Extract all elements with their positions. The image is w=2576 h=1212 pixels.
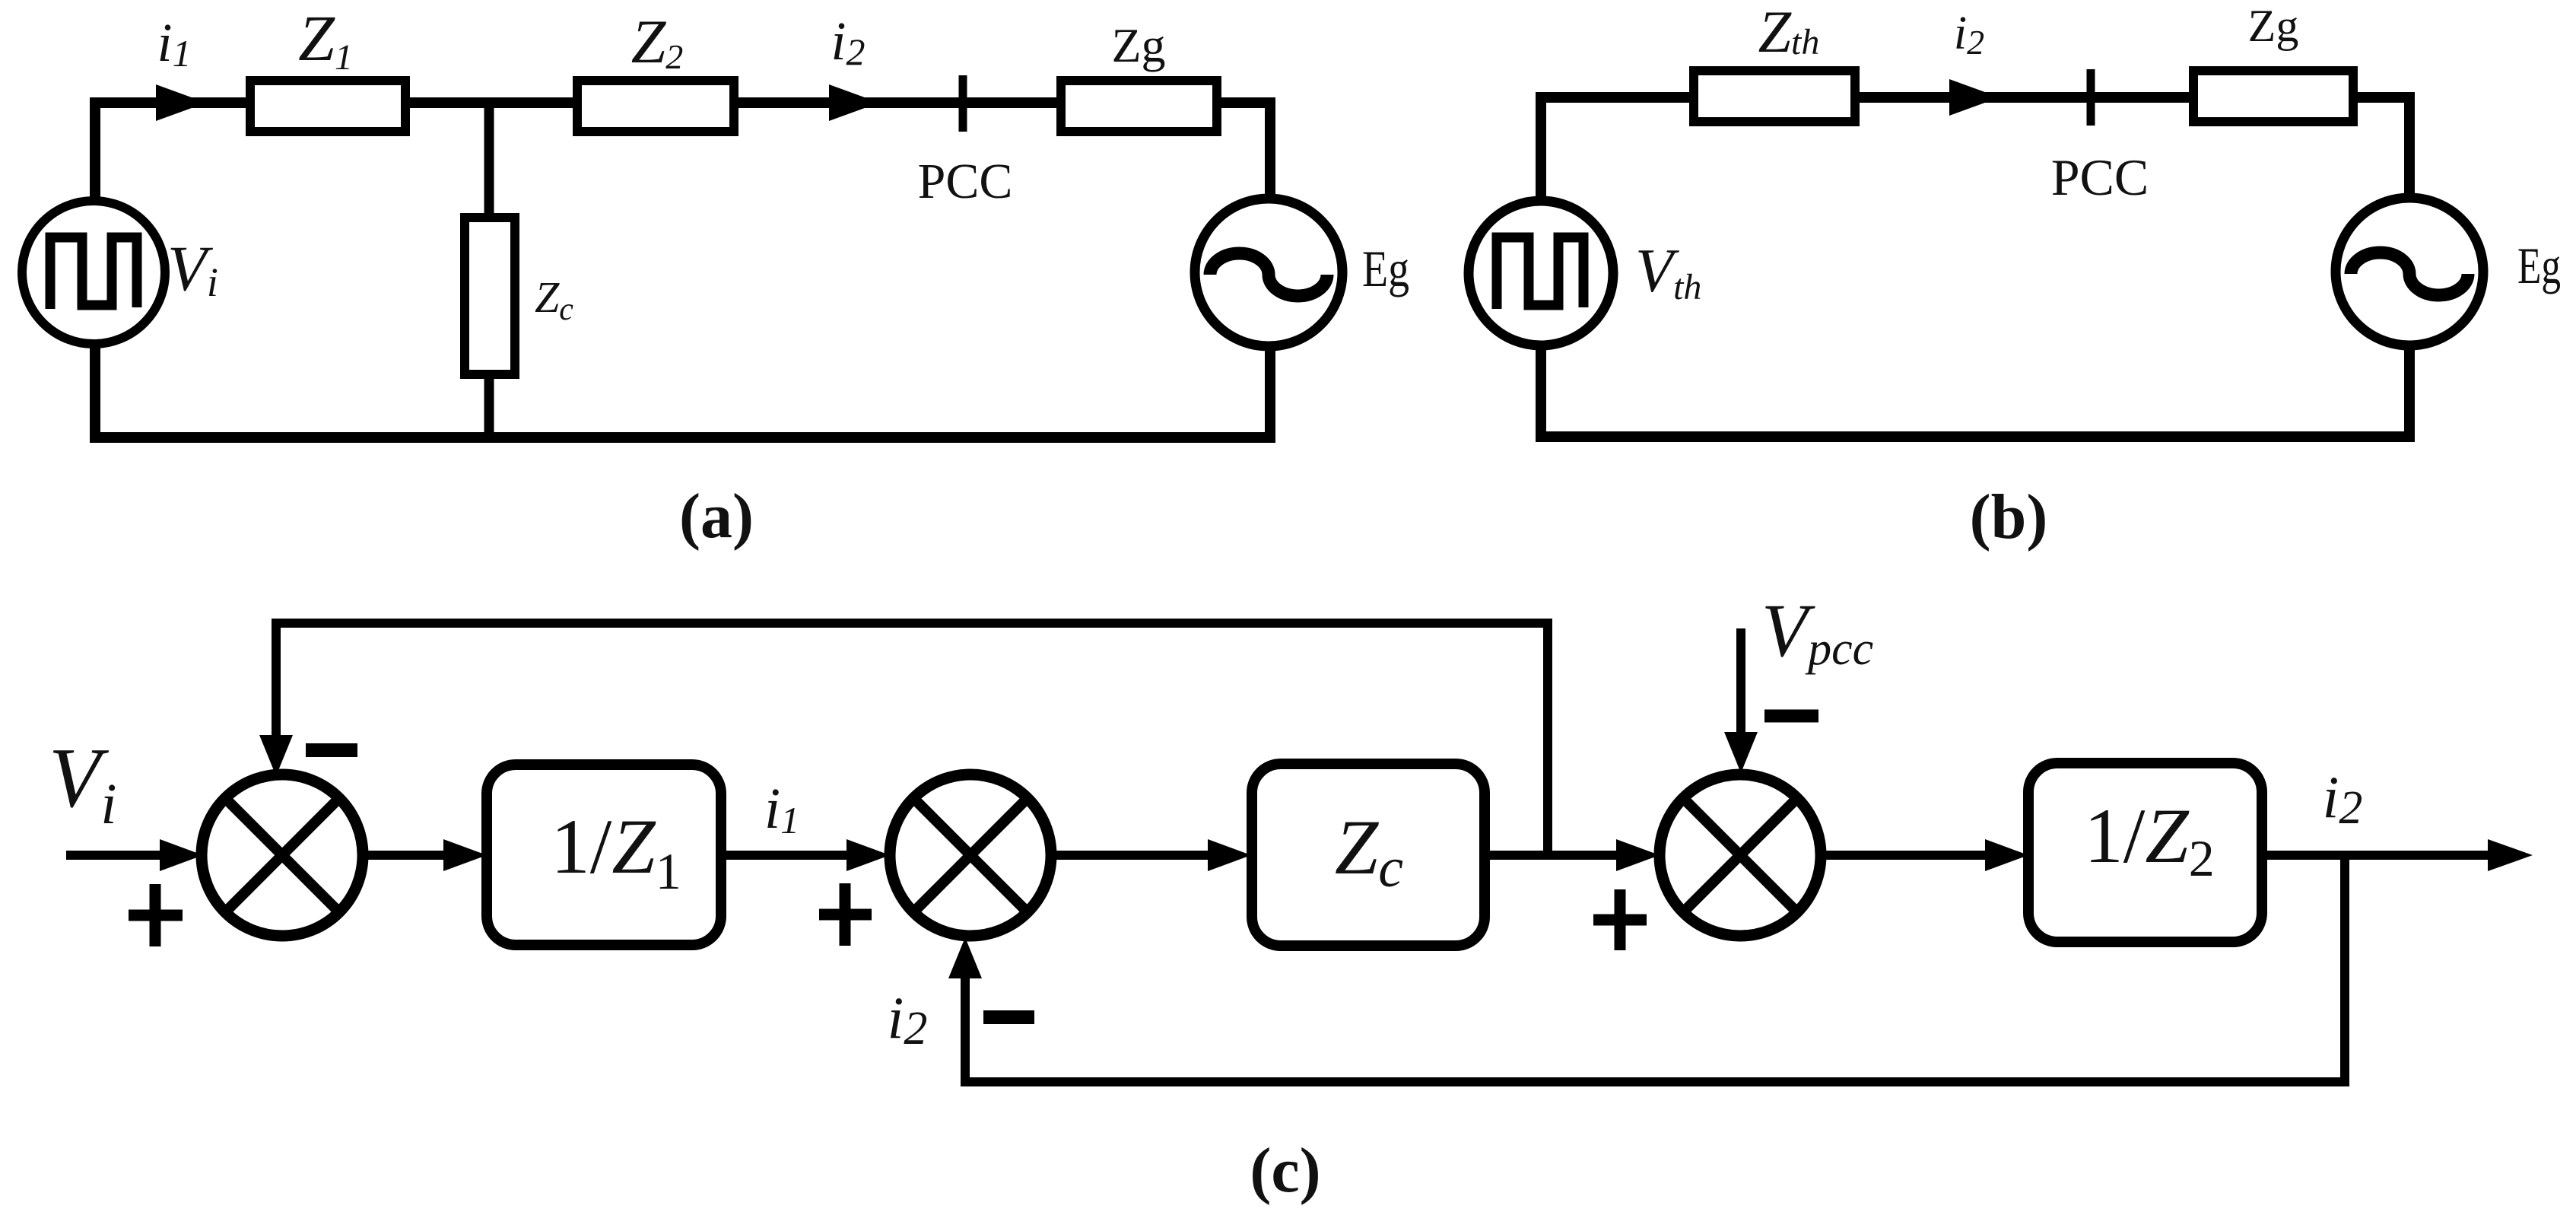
wire top horizontal (b) bbox=[1536, 92, 2415, 103]
wire Eg right vertical top (a) bbox=[1265, 97, 1275, 202]
svg-text:Vi: Vi bbox=[49, 731, 117, 836]
svg-text:i2: i2 bbox=[888, 985, 928, 1055]
svg-text:Z1: Z1 bbox=[298, 2, 353, 78]
source Vth square-wave glyph bbox=[1497, 237, 1583, 309]
resistor Zth bbox=[1694, 71, 1855, 122]
summer S3 circle bbox=[1660, 775, 1821, 936]
wire left vertical bottom (b) bbox=[1536, 345, 1546, 442]
wire S3 to block 1/Z2 bbox=[1821, 851, 1987, 860]
arrow into summer S1 bbox=[160, 839, 203, 871]
wire Eg right vertical bottom (a) bbox=[1265, 342, 1275, 443]
plus sign at S3 bbox=[1593, 889, 1647, 950]
arrow i2 (b) bbox=[1949, 79, 1999, 116]
svg-text:(a): (a) bbox=[679, 481, 754, 552]
svg-text:Zg: Zg bbox=[1111, 18, 1165, 72]
minus sign at S2 bottom bbox=[983, 1010, 1034, 1024]
plus sign at S1 bbox=[129, 884, 183, 946]
wire S2 to block Zc bbox=[1051, 851, 1209, 860]
summer S2 circle bbox=[890, 775, 1051, 936]
wire S1 to block 1/Z1 bbox=[363, 851, 445, 860]
wire 1/Z2 output bbox=[2263, 851, 2491, 860]
feedback wire top: down into S1 bbox=[272, 623, 281, 736]
wire Zc to summer S3 bbox=[1485, 851, 1618, 860]
svg-text:(b): (b) bbox=[1970, 482, 2048, 552]
source Eg sine glyph (a) bbox=[1210, 253, 1327, 296]
summer S2 cross bbox=[913, 798, 1028, 912]
svg-text:Vi: Vi bbox=[167, 233, 218, 305]
svg-text:i2: i2 bbox=[831, 11, 865, 73]
wire left vertical bottom (a) bbox=[90, 344, 100, 443]
plus sign at S2 bbox=[819, 883, 872, 946]
feedback wire tee down to Zc output bbox=[1543, 623, 1552, 855]
wire Vpcc down into S3 bbox=[1736, 628, 1745, 735]
feedback wire i2 bottom horizontal bbox=[961, 1077, 2349, 1086]
arrow output i2 bbox=[2488, 839, 2533, 871]
svg-text:PCC: PCC bbox=[918, 154, 1013, 209]
arrow Vpcc into S3 top bbox=[1724, 732, 1758, 773]
svg-text:Vpcc: Vpcc bbox=[1761, 588, 1873, 675]
source Eg circle (a) bbox=[1195, 199, 1342, 346]
wire bottom horizontal (b) bbox=[1536, 431, 2415, 442]
resistor Zg (b) bbox=[2193, 71, 2353, 122]
wire Zc junction vertical upper bbox=[484, 103, 494, 218]
arrow i2 (a) bbox=[829, 84, 879, 121]
arrow into S2 bbox=[846, 839, 890, 871]
wire bottom horizontal (a) bbox=[90, 432, 1275, 443]
minus sign at S1 top bbox=[306, 743, 357, 757]
block 1/Z2 bbox=[2028, 763, 2262, 942]
arrow i1 bbox=[156, 84, 206, 121]
feedback wire i2 tap down bbox=[2340, 855, 2349, 1086]
resistor Z1 bbox=[250, 81, 405, 132]
wire top horizontal (a) bbox=[90, 97, 1275, 108]
source Eg circle (b) bbox=[2336, 198, 2483, 345]
summer S3 cross bbox=[1683, 798, 1797, 912]
svg-text:Eg: Eg bbox=[2517, 237, 2561, 294]
arrow into S1 top bbox=[259, 735, 293, 776]
wire right vertical top (b) bbox=[2404, 92, 2415, 199]
svg-text:i2: i2 bbox=[1954, 8, 1984, 62]
wire Vi input bbox=[66, 851, 164, 860]
svg-text:i1: i1 bbox=[764, 777, 799, 841]
wire left vertical top (a) bbox=[90, 97, 100, 201]
svg-text:(c): (c) bbox=[1250, 1135, 1320, 1206]
resistor Zc bbox=[465, 218, 515, 374]
arrow into Zc bbox=[1208, 839, 1251, 871]
wire 1/Z1 to summer S2 bbox=[721, 851, 848, 860]
source Eg sine glyph (b) bbox=[2351, 253, 2468, 295]
svg-text:Eg: Eg bbox=[1362, 240, 1409, 297]
wire left vertical top (b) bbox=[1536, 92, 1546, 201]
arrow into 1/Z2 bbox=[1985, 839, 2028, 871]
svg-text:Z2: Z2 bbox=[631, 7, 684, 76]
summer S1 cross bbox=[225, 798, 339, 912]
block Zc bbox=[1252, 764, 1485, 946]
feedback wire i2 up into S2 bbox=[961, 978, 970, 1086]
summer S1 circle bbox=[202, 775, 363, 936]
source Vth circle bbox=[1469, 201, 1613, 345]
source Vi circle bbox=[22, 201, 165, 344]
arrow into 1/Z1 bbox=[443, 839, 487, 871]
svg-text:i1: i1 bbox=[157, 12, 191, 75]
node PCC tick (b) bbox=[2087, 69, 2095, 126]
block 1/Z1 bbox=[487, 765, 721, 945]
wire right vertical bottom (b) bbox=[2404, 342, 2415, 442]
resistor Z2 bbox=[577, 81, 734, 132]
resistor Zg (a) bbox=[1061, 81, 1217, 132]
svg-text:Zc: Zc bbox=[535, 272, 573, 327]
svg-text:PCC: PCC bbox=[2051, 148, 2149, 206]
svg-text:Vth: Vth bbox=[1635, 236, 1701, 307]
wire Zc to bottom bbox=[484, 374, 494, 441]
arrow into S2 bottom bbox=[948, 937, 982, 978]
svg-text:Zth: Zth bbox=[1758, 0, 1820, 65]
feedback wire top horizontal bbox=[272, 619, 1552, 628]
node PCC tick (a) bbox=[959, 75, 967, 132]
svg-text:Zg: Zg bbox=[2248, 1, 2299, 51]
arrow into S3 bbox=[1616, 839, 1660, 871]
svg-text:i2: i2 bbox=[2323, 764, 2363, 834]
minus sign at S3 top bbox=[1764, 710, 1818, 723]
source Vi square-wave glyph bbox=[50, 237, 137, 309]
